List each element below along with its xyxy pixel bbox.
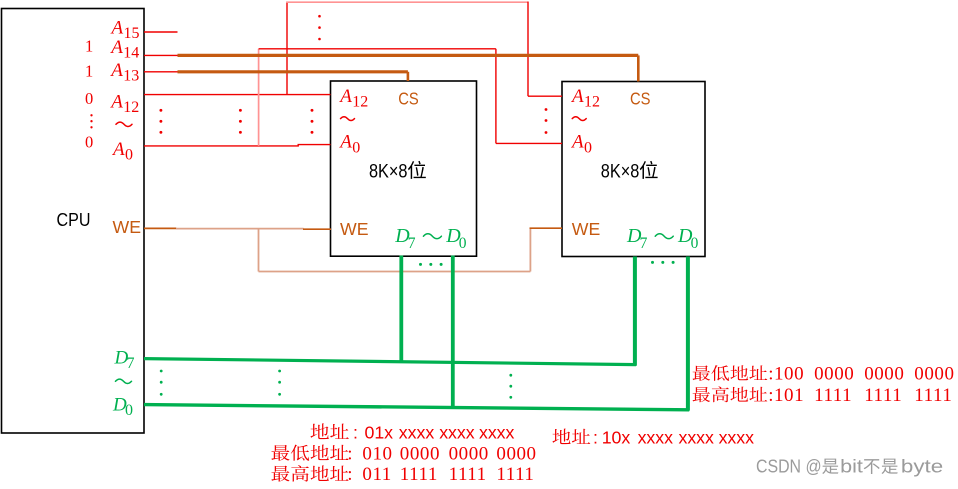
wire A12 down to U2 bbox=[527, 2, 529, 97]
note addr U1 bbox=[310, 423, 328, 439]
U2 label wei bbox=[640, 161, 658, 179]
wire A15 stub bbox=[144, 31, 178, 33]
svg-text:1111: 1111 bbox=[864, 385, 902, 406]
svg-text:101: 101 bbox=[774, 385, 804, 406]
svg-text:A: A bbox=[338, 132, 352, 153]
wire A14 bus to U2 CS bbox=[178, 54, 639, 57]
note addr U2 bbox=[552, 429, 570, 444]
svg-text:xxxx: xxxx bbox=[479, 422, 515, 442]
wire A13 drop into U1 CS bbox=[407, 72, 410, 81]
wire WE into U2 bbox=[530, 227, 563, 229]
svg-text::: : bbox=[347, 464, 352, 485]
data bus dots col2 bbox=[278, 370, 281, 373]
svg-text:0: 0 bbox=[125, 147, 133, 164]
address bus dots between chips bbox=[545, 108, 548, 111]
wire WE lower horizontal bbox=[259, 271, 531, 273]
label CPU tilde bbox=[116, 122, 132, 126]
label CPU data tilde bbox=[116, 379, 132, 383]
svg-text:0000: 0000 bbox=[814, 364, 854, 385]
svg-text:12: 12 bbox=[123, 99, 139, 116]
svg-text:1111: 1111 bbox=[496, 464, 534, 485]
wire A14 drop into U2 CS bbox=[637, 55, 640, 81]
wire A0 into U2 bbox=[496, 142, 562, 144]
svg-text:CPU: CPU bbox=[57, 209, 91, 230]
wire U1 D0 drop bbox=[451, 256, 455, 409]
wire U1 D7 drop bbox=[399, 256, 403, 363]
wire WE from CPU bbox=[144, 227, 176, 229]
address bus dots col3 bbox=[311, 109, 314, 112]
svg-text::: : bbox=[768, 385, 773, 406]
U2 data tilde bbox=[655, 234, 673, 239]
svg-text:01x: 01x bbox=[365, 422, 394, 442]
data bus dots col1 bbox=[160, 370, 163, 373]
svg-text:0000: 0000 bbox=[864, 364, 904, 385]
svg-text:A: A bbox=[111, 139, 125, 160]
svg-text:0: 0 bbox=[459, 235, 467, 252]
svg-text:A: A bbox=[109, 60, 123, 81]
CPU pin ellipsis dots bbox=[90, 114, 92, 116]
svg-text:100: 100 bbox=[774, 364, 804, 385]
wire U2 D7 drop bbox=[633, 257, 637, 366]
RAM chip U2 box bbox=[562, 82, 705, 257]
svg-text:A: A bbox=[338, 86, 352, 107]
note low addr U2 bbox=[693, 365, 711, 380]
note high addr U2 bbox=[693, 387, 711, 402]
note low addr U1 bbox=[271, 445, 289, 461]
CPU box bbox=[2, 9, 145, 434]
U2 data ellipsis bbox=[651, 261, 654, 264]
svg-text:xxxx: xxxx bbox=[439, 422, 475, 442]
svg-text::: : bbox=[593, 427, 598, 447]
address bus dots col1 bbox=[159, 109, 162, 112]
wire D7 bus bbox=[144, 359, 636, 365]
wire WE rise to U2 bbox=[529, 228, 531, 271]
svg-text:0000: 0000 bbox=[400, 443, 440, 464]
svg-text:1111: 1111 bbox=[449, 464, 487, 485]
wire WE branch down bbox=[258, 228, 260, 271]
svg-text:15: 15 bbox=[123, 25, 139, 42]
svg-text:10x: 10x bbox=[602, 427, 631, 447]
svg-text::: : bbox=[353, 422, 358, 442]
svg-text:7: 7 bbox=[126, 355, 134, 372]
wire A13 bus to U1 CS bbox=[178, 70, 408, 73]
svg-text:010: 010 bbox=[362, 443, 392, 464]
svg-text::: : bbox=[768, 364, 773, 385]
svg-text:1111: 1111 bbox=[400, 464, 438, 485]
svg-text:13: 13 bbox=[123, 68, 139, 85]
svg-text::: : bbox=[347, 443, 352, 464]
svg-text:1111: 1111 bbox=[914, 385, 952, 406]
svg-text:12: 12 bbox=[352, 94, 368, 111]
wire A12 into U2 bbox=[528, 95, 562, 97]
svg-text:12: 12 bbox=[584, 94, 600, 111]
svg-text:xxxx: xxxx bbox=[679, 427, 715, 447]
U1 tilde bbox=[341, 117, 355, 121]
wire A14 stub bbox=[144, 54, 178, 56]
svg-text:8K×8: 8K×8 bbox=[601, 161, 640, 182]
svg-text:0: 0 bbox=[691, 235, 699, 252]
svg-text:bit: bit bbox=[840, 457, 863, 477]
wire A12 branch up bbox=[286, 2, 288, 95]
svg-text:7: 7 bbox=[408, 235, 416, 252]
RAM chip U1 box bbox=[331, 81, 477, 256]
U1 label wei bbox=[408, 161, 426, 179]
svg-text:14: 14 bbox=[123, 45, 139, 62]
svg-text:WE: WE bbox=[572, 219, 601, 239]
U2 tilde bbox=[572, 117, 586, 121]
svg-text:xxxx: xxxx bbox=[719, 427, 755, 447]
svg-text:A: A bbox=[110, 18, 124, 39]
wire U2 D0 drop bbox=[686, 257, 690, 411]
wire D0 bus bbox=[144, 405, 689, 410]
svg-text:7: 7 bbox=[640, 235, 648, 252]
svg-text:0: 0 bbox=[85, 133, 93, 152]
svg-text:0: 0 bbox=[125, 402, 133, 419]
wire A0 upper horizontal bbox=[259, 48, 496, 50]
svg-text:WE: WE bbox=[340, 219, 369, 239]
wire WE into U1 bbox=[303, 228, 331, 230]
wire A0 down to U2 bbox=[495, 49, 497, 144]
svg-text:A: A bbox=[109, 37, 123, 58]
svg-text:8K×8: 8K×8 bbox=[369, 161, 408, 182]
wire A13 stub bbox=[144, 71, 178, 73]
wire A12 CPU to U1 bbox=[144, 94, 331, 96]
svg-text:xxxx: xxxx bbox=[638, 427, 674, 447]
svg-text:1: 1 bbox=[85, 62, 93, 81]
svg-text:byte: byte bbox=[901, 457, 943, 477]
wire A0 CPU to U1 bbox=[144, 145, 331, 146]
note high addr U1 bbox=[271, 466, 289, 482]
svg-text:0: 0 bbox=[85, 89, 93, 108]
svg-text:0: 0 bbox=[352, 139, 360, 156]
wire A0 branch vertical bbox=[258, 49, 260, 146]
svg-text:011: 011 bbox=[362, 464, 391, 485]
data bus dots col3 bbox=[509, 374, 512, 377]
address bus dots top bbox=[318, 15, 321, 18]
svg-text:0000: 0000 bbox=[496, 443, 536, 464]
address bus dots col2 bbox=[239, 109, 242, 112]
svg-text:A: A bbox=[570, 86, 584, 107]
svg-text:1111: 1111 bbox=[814, 385, 852, 406]
svg-text:WE: WE bbox=[113, 217, 142, 237]
U1 data ellipsis bbox=[419, 263, 422, 266]
svg-text:1: 1 bbox=[85, 37, 93, 56]
svg-text:A: A bbox=[109, 91, 123, 112]
wire WE pale middle bbox=[176, 228, 304, 230]
svg-text:CS: CS bbox=[398, 89, 419, 109]
svg-text:0000: 0000 bbox=[449, 443, 489, 464]
svg-text:CSDN @: CSDN @ bbox=[756, 457, 822, 477]
U1 data tilde bbox=[423, 234, 441, 239]
svg-text:0: 0 bbox=[584, 139, 592, 156]
svg-text:0000: 0000 bbox=[914, 364, 954, 385]
wire A12 top horizontal bbox=[286, 1, 528, 3]
svg-text:xxxx: xxxx bbox=[399, 422, 435, 442]
svg-text:A: A bbox=[570, 132, 584, 153]
svg-text:CS: CS bbox=[630, 89, 651, 109]
